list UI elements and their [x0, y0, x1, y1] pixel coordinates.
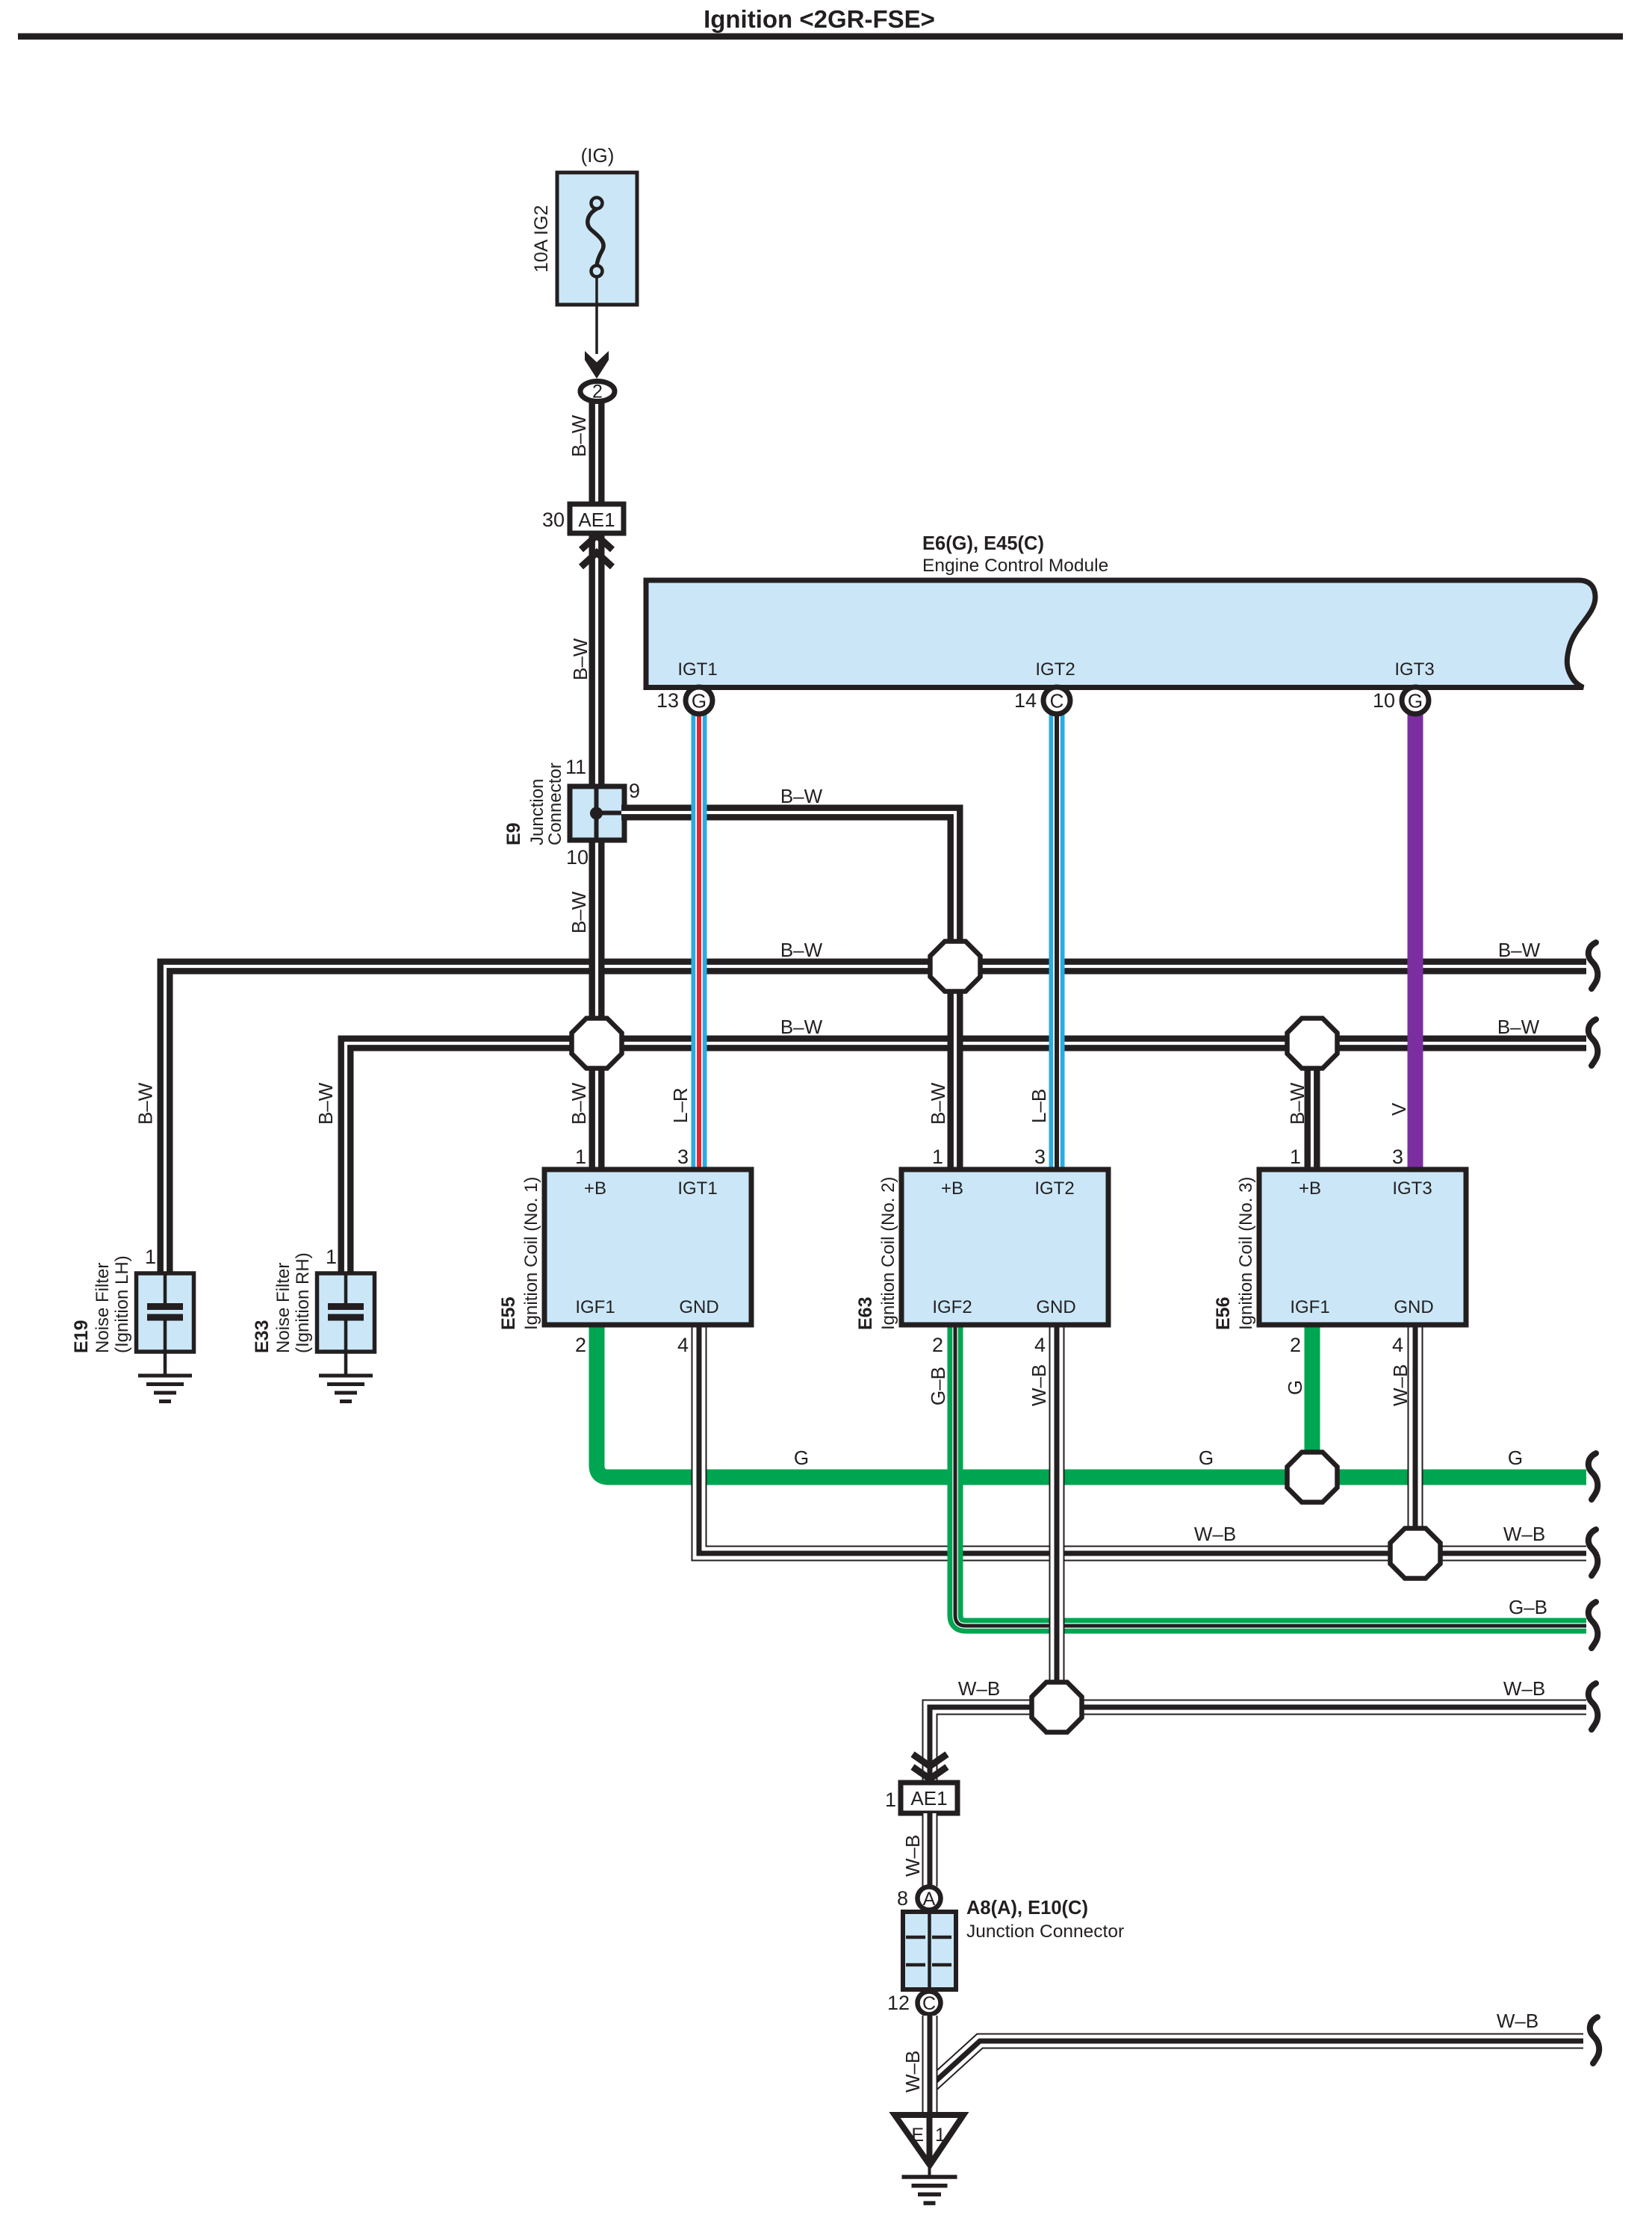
svg-text:W–B: W–B	[1389, 1364, 1412, 1406]
wire B-W coil2 feed crossing over bus lower	[948, 1025, 963, 1061]
wire G IGF1 of coil1 down and across (G bus)	[597, 1327, 1586, 1477]
svg-text:B–W: B–W	[314, 1082, 337, 1125]
svg-text:B–W: B–W	[569, 638, 591, 680]
connector AE1 pin 1 box	[901, 1783, 957, 1813]
svg-text:AE1: AE1	[578, 509, 615, 531]
E33 ground	[319, 1374, 373, 1378]
svg-text:2: 2	[592, 382, 603, 403]
fuse 10A IG2 box	[557, 173, 637, 305]
svg-text:Engine Control Module: Engine Control Module	[922, 556, 1108, 576]
svg-text:(Ignition LH): (Ignition LH)	[112, 1255, 132, 1353]
svg-text:W–B: W–B	[1503, 1677, 1545, 1700]
svg-text:V: V	[1388, 1102, 1410, 1116]
svg-text:IGF2: IGF2	[932, 1297, 972, 1317]
svg-text:E19: E19	[71, 1320, 92, 1353]
svg-text:9: 9	[629, 780, 640, 802]
A8 pin 8 circle A	[918, 1887, 941, 1910]
ignition coil E55 box	[544, 1169, 751, 1325]
svg-text:Noise Filter: Noise Filter	[93, 1263, 113, 1353]
svg-text:G: G	[1199, 1447, 1214, 1469]
junction connector E9 box	[570, 786, 624, 840]
svg-text:1: 1	[935, 2125, 945, 2146]
fuse element symbol	[588, 209, 603, 266]
svg-text:B–W: B–W	[1498, 939, 1541, 961]
wire fuse output	[595, 276, 598, 354]
svg-text:E63: E63	[855, 1297, 876, 1330]
noise filter E33 box	[317, 1273, 375, 1352]
wire W-B branch from E1 drop to right	[931, 2041, 1583, 2085]
wire break W-B bus A right	[1589, 1529, 1597, 1576]
svg-text:1: 1	[575, 1146, 586, 1168]
svg-text:3: 3	[677, 1146, 689, 1168]
svg-text:12: 12	[887, 1992, 910, 2014]
noise filter E19 box	[137, 1273, 194, 1352]
svg-text:B–W: B–W	[568, 414, 590, 457]
svg-text:G: G	[1284, 1380, 1306, 1395]
svg-text:G: G	[1508, 1447, 1523, 1469]
svg-text:E55: E55	[498, 1296, 519, 1330]
junction octagon bus2 / coil3 feed	[1288, 1019, 1338, 1069]
svg-text:C: C	[1050, 690, 1064, 712]
svg-text:1: 1	[1290, 1146, 1301, 1168]
wire W-B A8 pin 12 down to E1 ground point	[922, 2016, 938, 2115]
svg-text:E56: E56	[1213, 1297, 1234, 1330]
svg-text:Junction: Junction	[527, 779, 547, 845]
svg-text:IGT1: IGT1	[677, 659, 717, 680]
junction octagon G bus / coil3 IGF1	[1288, 1453, 1338, 1503]
svg-text:8: 8	[897, 1887, 908, 1910]
svg-text:B–W: B–W	[568, 1082, 590, 1125]
E9 pin 9 stub	[597, 811, 625, 816]
wire W-B GND of coil3 down to W-B bus A	[1408, 1327, 1423, 1553]
svg-text:IGT2: IGT2	[1034, 1178, 1074, 1199]
ignition coil E56 box	[1259, 1169, 1466, 1325]
svg-text:B–W: B–W	[780, 785, 823, 807]
svg-text:Noise Filter: Noise Filter	[273, 1263, 294, 1353]
svg-text:IGF1: IGF1	[1290, 1297, 1329, 1317]
wire B-W main vertical crossing over bus upper	[589, 948, 605, 984]
svg-text:1: 1	[145, 1246, 156, 1268]
svg-text:B–W: B–W	[1286, 1082, 1308, 1125]
svg-text:B–W: B–W	[1497, 1016, 1540, 1038]
svg-text:E6(G), E45(C): E6(G), E45(C)	[922, 533, 1044, 554]
svg-text:GND: GND	[1036, 1297, 1075, 1317]
svg-text:W–B: W–B	[901, 1835, 924, 1877]
svg-text:2: 2	[575, 1334, 586, 1356]
svg-text:A8(A), E10(C): A8(A), E10(C)	[966, 1898, 1088, 1919]
ignition coil E63 box	[901, 1169, 1108, 1325]
svg-text:10A IG2: 10A IG2	[531, 205, 552, 273]
wire break G bus right	[1589, 1453, 1597, 1500]
ECM pin 13 circle G	[686, 687, 712, 714]
svg-text:L–B: L–B	[1028, 1089, 1050, 1123]
svg-text:W–B: W–B	[1194, 1523, 1236, 1545]
E9 junction dot	[590, 807, 603, 820]
E1 ground symbol	[902, 2175, 957, 2179]
ECM pin 14 circle C	[1043, 687, 1070, 714]
wire G IGF1 of coil3 down to G bus	[1305, 1327, 1320, 1477]
wire W-B W-B bus B to AE1(1)	[930, 1707, 1586, 1785]
arrow chevrons up below AE1(30)	[581, 535, 612, 550]
svg-text:4: 4	[1034, 1334, 1046, 1356]
E33 capacitor symbol	[344, 1275, 348, 1303]
wire W-B AE1(1) down to junction connector pin 8	[922, 1813, 938, 1886]
svg-text:E33: E33	[252, 1320, 273, 1353]
arrow chevrons down above AE1(1)	[913, 1754, 947, 1766]
svg-text:W–B: W–B	[1497, 2010, 1538, 2032]
svg-text:(IG): (IG)	[581, 144, 615, 167]
engine control module E6/E45 box	[646, 580, 1595, 688]
svg-text:(Ignition RH): (Ignition RH)	[293, 1252, 313, 1353]
wire B-W bus upper: to E19 noise filter and across	[165, 966, 1586, 1272]
wire break bus1 right	[1589, 942, 1597, 989]
junction octagon bus1 / coil2 feed	[931, 942, 981, 992]
svg-text:10: 10	[1373, 689, 1395, 712]
wire L-R IGT1 ECM pin 13 to ignition coil No.1	[692, 709, 707, 1167]
svg-text:E9: E9	[503, 822, 524, 845]
svg-text:W–B: W–B	[1028, 1364, 1050, 1406]
svg-text:Ignition Coil (No. 2): Ignition Coil (No. 2)	[878, 1177, 898, 1330]
svg-text:10: 10	[566, 846, 589, 869]
svg-text:W–B: W–B	[958, 1677, 1000, 1700]
svg-text:13: 13	[656, 689, 679, 712]
svg-text:+B: +B	[584, 1178, 606, 1199]
svg-text:14: 14	[1014, 689, 1037, 712]
svg-text:E: E	[911, 2125, 924, 2146]
svg-text:2: 2	[1290, 1334, 1301, 1356]
svg-text:Ignition Coil (No. 3): Ignition Coil (No. 3)	[1236, 1177, 1256, 1330]
wire B-W main vertical from node 2 through AE1(30) to E9 pin 11	[589, 393, 605, 789]
wire L-B IGT2 ECM pin 14 to ignition coil No.2	[1049, 709, 1065, 1167]
E19 ground	[138, 1374, 192, 1378]
svg-text:11: 11	[565, 756, 586, 778]
svg-text:4: 4	[1392, 1334, 1403, 1356]
svg-text:B–W: B–W	[780, 939, 823, 961]
junction octagon W-B bus B / coil2 GND	[1032, 1683, 1082, 1733]
ground point E1 triangle	[895, 2115, 963, 2165]
wire break W-B bus B right	[1589, 1683, 1597, 1730]
svg-text:IGT3: IGT3	[1392, 1178, 1432, 1199]
svg-text:B–W: B–W	[780, 1016, 823, 1038]
svg-text:Ignition <2GR-FSE>: Ignition <2GR-FSE>	[704, 5, 935, 33]
svg-text:+B: +B	[941, 1178, 963, 1199]
junction octagon W-B bus A / coil3 GND	[1391, 1529, 1441, 1579]
svg-text:G: G	[1408, 690, 1423, 712]
svg-text:30: 30	[542, 509, 565, 531]
svg-text:3: 3	[1034, 1146, 1046, 1168]
svg-text:C: C	[922, 1993, 936, 2014]
svg-text:W–B: W–B	[901, 2051, 924, 2093]
svg-text:L–R: L–R	[669, 1087, 692, 1123]
svg-text:IGF1: IGF1	[575, 1297, 615, 1317]
svg-text:Ignition Coil (No. 1): Ignition Coil (No. 1)	[521, 1177, 541, 1330]
wire B-W main vertical from E9 pin 10 to ignition coil No.1 +B	[589, 837, 605, 1167]
A8 pin 12 circle C	[918, 1992, 941, 2015]
wire W-B GND of coil2 down to W-B bus B	[1049, 1327, 1065, 1707]
svg-text:GND: GND	[679, 1297, 718, 1317]
wire B-W from E9 pin 9 right then down to ignition coil No.2 +B	[621, 813, 955, 1167]
svg-text:1: 1	[326, 1246, 337, 1268]
top rule	[18, 34, 1623, 40]
svg-text:IGT2: IGT2	[1035, 659, 1075, 680]
node 2 ellipse	[580, 382, 615, 402]
connector AE1 pin 30 box	[570, 504, 624, 533]
junction connector A8/E10 box	[903, 1912, 956, 1989]
svg-text:3: 3	[1392, 1146, 1403, 1168]
wire B-W from bus lower down to ignition coil No.3 +B	[1305, 1043, 1320, 1167]
wire break bottom W-B right	[1590, 2017, 1599, 2063]
svg-text:W–B: W–B	[1503, 1523, 1545, 1545]
svg-text:Junction Connector: Junction Connector	[966, 1922, 1124, 1942]
wire B-W bus lower: to E33 noise filter and across	[346, 1043, 1586, 1272]
svg-text:G: G	[794, 1447, 809, 1469]
svg-text:B–W: B–W	[568, 891, 590, 934]
svg-text:IGT3: IGT3	[1394, 659, 1434, 680]
svg-text:IGT1: IGT1	[677, 1178, 717, 1199]
svg-text:G–B: G–B	[1509, 1596, 1547, 1618]
wire V IGT3 ECM pin 10 to ignition coil No.3	[1408, 709, 1423, 1167]
svg-text:G: G	[692, 690, 707, 712]
svg-text:B–W: B–W	[927, 1082, 949, 1125]
svg-text:1: 1	[885, 1789, 896, 1811]
svg-text:G–B: G–B	[927, 1367, 949, 1405]
svg-text:GND: GND	[1394, 1297, 1433, 1317]
ECM pin 10 circle G	[1402, 687, 1429, 714]
arrowhead to node 2	[585, 351, 609, 379]
svg-text:A: A	[923, 1889, 936, 1910]
svg-text:+B: +B	[1299, 1178, 1321, 1199]
svg-text:Connector: Connector	[545, 762, 565, 845]
wire break bus2 right	[1589, 1019, 1597, 1066]
wire G-B IGF2 of coil2 down and across (G-B bus)	[955, 1327, 1586, 1626]
svg-text:2: 2	[932, 1334, 943, 1356]
svg-text:1: 1	[932, 1146, 943, 1168]
junction octagon bus2 / coil1 feed	[572, 1019, 622, 1069]
svg-text:AE1: AE1	[910, 1787, 947, 1809]
svg-text:4: 4	[677, 1334, 689, 1356]
wire W-B GND of coil1 down and across (W-B bus A)	[699, 1327, 1586, 1553]
svg-text:B–W: B–W	[134, 1082, 157, 1125]
wire break G-B bus right	[1589, 1602, 1597, 1648]
E19 capacitor symbol	[164, 1275, 167, 1303]
